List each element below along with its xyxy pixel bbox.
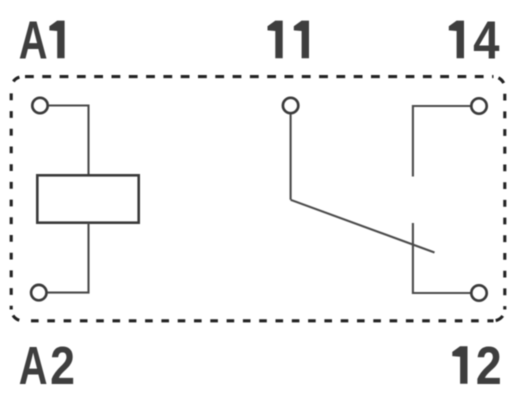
svg-text:A: A xyxy=(19,11,48,71)
wire A1 to coil xyxy=(49,106,89,176)
relay outline: bottom dashed edge xyxy=(23,319,494,322)
label A1 xyxy=(19,11,65,71)
wire fixed contact 14 xyxy=(413,106,470,177)
label A2 xyxy=(19,336,75,396)
relay outline: top-right corner xyxy=(493,77,505,88)
svg-text:2: 2 xyxy=(476,335,502,396)
moving contact arm xyxy=(291,200,435,253)
relay outline: bottom-left corner xyxy=(11,309,23,321)
relay outline: top dashed edge xyxy=(23,75,494,78)
relay outline: left dashed edge xyxy=(10,88,13,310)
relay outline: top-left corner xyxy=(11,77,23,88)
terminal A2 xyxy=(31,285,46,300)
wire coil to A2 xyxy=(48,223,89,293)
terminal 14 xyxy=(471,98,486,113)
wire fixed contact 12 xyxy=(413,223,470,293)
terminal 11 xyxy=(283,98,298,113)
relay outline: right dashed edge xyxy=(503,88,506,310)
svg-text:A: A xyxy=(19,336,48,396)
coil (rectangle) xyxy=(37,175,138,222)
svg-text:2: 2 xyxy=(50,336,75,396)
wire pole 11 xyxy=(290,114,292,200)
svg-text:4: 4 xyxy=(473,9,499,70)
label 11 xyxy=(268,21,310,59)
label 14 xyxy=(449,9,500,70)
relay outline: bottom-right corner xyxy=(493,309,505,321)
terminal 12 xyxy=(471,285,486,300)
terminal A1 xyxy=(32,98,47,113)
label 12 xyxy=(452,335,501,396)
